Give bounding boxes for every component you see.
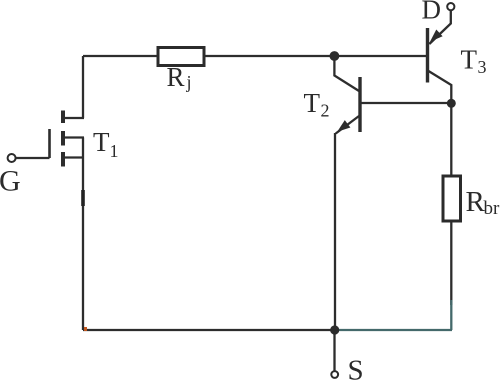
svg-text:1: 1 [110,141,119,161]
svg-text:T: T [93,127,110,157]
svg-text:G: G [0,165,21,198]
svg-text:j: j [186,72,192,92]
svg-text:R: R [167,62,185,92]
svg-text:3: 3 [478,57,487,77]
svg-text:R: R [466,186,486,218]
svg-text:D: D [422,0,442,25]
svg-text:T: T [461,45,478,75]
svg-text:br: br [484,198,500,219]
svg-text:2: 2 [321,101,330,121]
svg-text:T: T [304,88,321,118]
svg-text:S: S [348,355,364,381]
